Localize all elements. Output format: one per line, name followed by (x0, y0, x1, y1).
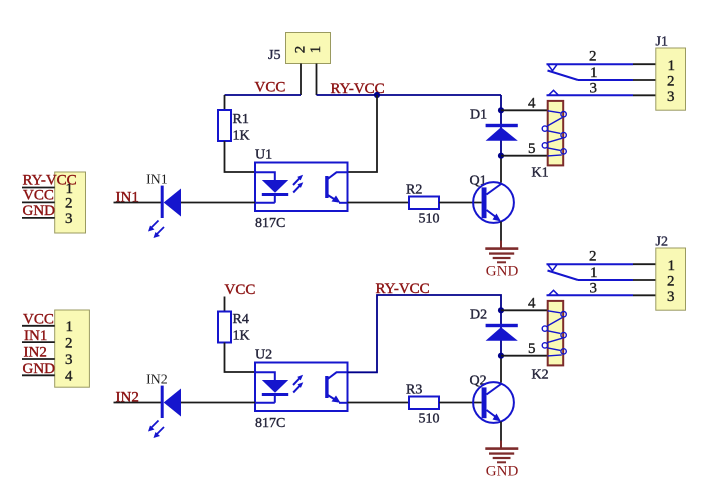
wire D2 chain to Q2 collector (500, 356, 502, 383)
wire D2 chain (500, 310, 502, 355)
relay K1 contact NC line (547, 63, 634, 65)
wire relay K2 pin5 (501, 355, 548, 357)
wire P2 pin1 stub (22, 325, 55, 327)
junction relay pin5 (498, 153, 504, 159)
wire U2 emitter to R3 (348, 402, 410, 404)
wire P2 pin4 stub (22, 374, 55, 376)
svg-text:RY-VCC: RY-VCC (23, 173, 77, 189)
wire J5 pin2 down (300, 64, 302, 96)
svg-text:VCC: VCC (23, 311, 54, 327)
connector P1 (55, 172, 86, 233)
svg-text:3: 3 (65, 211, 73, 227)
wire R1 to U1 anode (225, 141, 256, 172)
contact NO arrow (549, 90, 559, 95)
wire J5 pin1 down (316, 64, 318, 96)
svg-text:GND: GND (23, 203, 56, 219)
svg-text:D1: D1 (470, 108, 487, 123)
svg-text:U1: U1 (255, 148, 272, 163)
ground GND1 (485, 241, 518, 280)
connector J2 (656, 235, 686, 311)
wire P1 pin1 stub (22, 187, 55, 189)
svg-text:R2: R2 (406, 183, 422, 198)
relay K2 contact NC line (547, 263, 634, 265)
wire Q2 emitter to ground (500, 422, 502, 441)
svg-text:5: 5 (528, 141, 536, 157)
svg-text:3: 3 (590, 281, 598, 297)
wire R2 to Q1 base (439, 202, 482, 204)
wire R4 to U2 anode (225, 343, 256, 373)
contact NC arrow (548, 64, 558, 71)
svg-text:Q1: Q1 (470, 174, 487, 189)
connector J5 (268, 33, 331, 64)
svg-text:Q2: Q2 (470, 374, 487, 389)
wire IN1 (114, 202, 162, 204)
resistor R3 (406, 383, 440, 427)
op-amp U2 optocoupler (255, 348, 348, 432)
contact NO line (547, 94, 634, 96)
svg-text:2: 2 (589, 49, 597, 65)
U1 LED (255, 172, 288, 203)
svg-text:1: 1 (668, 58, 676, 74)
svg-text:R1: R1 (233, 112, 249, 127)
svg-text:J2: J2 (656, 235, 668, 250)
resistor R2 (406, 183, 440, 227)
wire U2 collector to RY-VCC bottom (348, 295, 502, 372)
svg-text:3: 3 (65, 352, 73, 368)
wire D1 chain to Q1 collector (500, 156, 502, 183)
contact K2 common line (578, 279, 633, 281)
svg-text:J5: J5 (268, 48, 280, 63)
svg-text:J1: J1 (656, 35, 668, 50)
contact common line (578, 79, 633, 81)
svg-text:1K: 1K (233, 129, 250, 144)
transistor Q1 (470, 174, 514, 223)
ground GND2 (485, 441, 518, 480)
svg-text:1: 1 (590, 65, 598, 81)
svg-text:1: 1 (590, 265, 598, 281)
wire relay pin5 (501, 155, 548, 157)
svg-text:VCC: VCC (23, 188, 54, 204)
svg-text:IN1: IN1 (24, 328, 47, 344)
contact K2 NO arrow (549, 290, 559, 295)
wire P2 pin2 stub (22, 341, 55, 343)
wire IN2 (114, 402, 162, 404)
wire IN1 LED to U1 (181, 202, 255, 204)
wire contact to J2 pin3 (633, 294, 656, 296)
wire RY-VCC corner to D1 chain (500, 95, 502, 156)
U2 phototransistor (325, 372, 347, 403)
svg-text:IN2: IN2 (24, 345, 47, 361)
svg-text:GND: GND (486, 264, 519, 280)
svg-text:1: 1 (66, 319, 74, 335)
svg-text:1K: 1K (233, 329, 250, 344)
wire R3 to Q2 base (439, 402, 482, 404)
svg-text:510: 510 (419, 412, 440, 427)
svg-text:2: 2 (65, 335, 73, 351)
wire IN2 LED to U2 (181, 402, 255, 404)
svg-text:VCC: VCC (225, 282, 256, 298)
svg-text:GND: GND (23, 361, 56, 377)
wire Q1 emitter to ground (500, 222, 502, 241)
wire VCC to R1 (224, 95, 226, 110)
wire P1 pin2 stub (22, 201, 55, 203)
svg-text:1: 1 (308, 46, 324, 54)
resistor R4 (218, 312, 250, 344)
svg-text:K1: K1 (532, 166, 549, 181)
svg-text:2: 2 (667, 73, 675, 89)
contact K2 NO line (547, 294, 634, 296)
U2 LED (255, 372, 288, 403)
svg-text:817C: 817C (255, 216, 285, 231)
junction relay K2 pin5 (498, 353, 504, 359)
connector P2 (55, 310, 90, 387)
svg-text:IN1: IN1 (146, 173, 168, 188)
wire relay pin4 (501, 109, 548, 111)
svg-text:1: 1 (668, 258, 676, 274)
U1 phototransistor (325, 172, 347, 203)
wire VCC horizontal (225, 94, 302, 96)
wire P2 pin3 stub (22, 358, 55, 360)
wire U1 emitter to R2 (348, 202, 410, 204)
svg-text:K2: K2 (532, 368, 549, 383)
svg-text:2: 2 (667, 273, 675, 289)
svg-text:510: 510 (419, 212, 440, 227)
svg-text:3: 3 (667, 289, 675, 305)
svg-text:RY-VCC: RY-VCC (376, 281, 430, 297)
contact K2 blade (548, 271, 579, 281)
svg-text:D2: D2 (470, 308, 487, 323)
svg-text:3: 3 (590, 81, 598, 97)
svg-text:2: 2 (65, 196, 73, 212)
LED IN1 (146, 173, 181, 239)
wire relay K2 pin4 (501, 309, 548, 311)
wire contact to J1 pin2 (633, 79, 656, 81)
diode D2 (470, 308, 518, 341)
wire VCC to R4 (224, 297, 226, 312)
svg-text:817C: 817C (255, 416, 285, 431)
junction relay pin4 (498, 107, 504, 113)
relay coil K2 (532, 301, 567, 383)
wire P1 pin3 stub (22, 217, 55, 219)
svg-text:2: 2 (292, 46, 308, 54)
wire contact to J2 pin2 (633, 279, 656, 281)
svg-text:IN2: IN2 (146, 373, 168, 388)
resistor R1 (218, 110, 250, 144)
junction relay K2 pin4 (498, 307, 504, 313)
wire contact to J2 pin1 (633, 263, 656, 265)
svg-text:U2: U2 (255, 348, 272, 363)
contact blade (548, 71, 579, 81)
svg-text:4: 4 (528, 296, 536, 312)
junction at RY-VCC drop (374, 92, 380, 98)
svg-text:4: 4 (65, 369, 73, 385)
svg-text:2: 2 (589, 249, 597, 265)
wire contact to J1 pin1 (633, 63, 656, 65)
svg-text:GND: GND (486, 464, 519, 480)
relay coil K1 (532, 101, 567, 181)
svg-text:R4: R4 (233, 312, 249, 327)
connector J1 (656, 35, 686, 111)
transistor Q2 (470, 374, 514, 423)
LED IN2 (146, 373, 181, 439)
U1 emission arrows (293, 175, 303, 193)
svg-text:R3: R3 (406, 383, 422, 398)
contact K2 NC arrow (548, 264, 558, 271)
svg-text:3: 3 (667, 89, 675, 105)
svg-text:5: 5 (528, 341, 536, 357)
wire contact to J1 pin3 (633, 94, 656, 96)
svg-text:4: 4 (528, 96, 536, 112)
wire drop to U1 collector (348, 95, 378, 172)
wire RY-VCC rail (317, 94, 502, 96)
diode D1 (470, 108, 518, 141)
U2 emission arrows (293, 375, 303, 393)
svg-text:VCC: VCC (255, 80, 286, 96)
op-amp U1 optocoupler (255, 148, 348, 232)
